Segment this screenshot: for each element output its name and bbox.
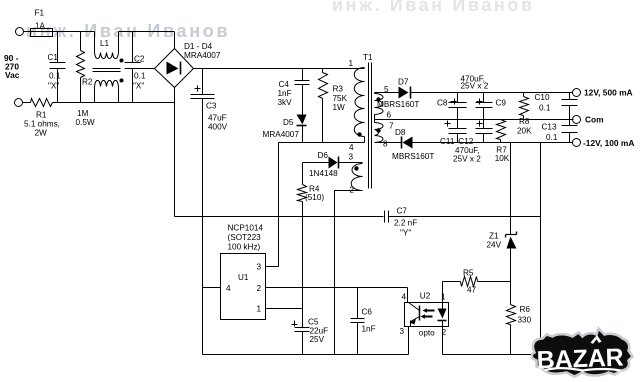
- T1 primary dot: [357, 132, 361, 136]
- bazar logo: [532, 329, 633, 377]
- T1 sec top dot: [376, 97, 380, 101]
- svg-text:20K: 20K: [517, 127, 532, 136]
- svg-text:D6: D6: [318, 151, 329, 160]
- svg-text:5.1 ohms,: 5.1 ohms,: [24, 120, 60, 129]
- capacitor C12: [476, 120, 493, 143]
- resistor R5: [443, 282, 511, 303]
- svg-text:"X": "X": [133, 82, 144, 91]
- svg-text:1: 1: [441, 293, 446, 302]
- svg-text:2.2 nF: 2.2 nF: [394, 219, 417, 228]
- svg-text:"Y": "Y": [400, 229, 411, 238]
- T1 primary winding: [354, 68, 364, 137]
- svg-text:4: 4: [402, 293, 407, 302]
- svg-text:R8: R8: [519, 117, 530, 126]
- zener Z1: [510, 143, 512, 235]
- capacitor C10: [562, 93, 578, 120]
- capacitor C9: [476, 93, 493, 120]
- wire aux return: [335, 191, 363, 355]
- svg-text:C6: C6: [362, 308, 373, 317]
- svg-text:1A: 1A: [35, 22, 46, 31]
- svg-text:U2: U2: [420, 291, 431, 300]
- U1 pin4 line: [203, 287, 221, 289]
- resistor R2: [80, 32, 82, 103]
- svg-text:1W: 1W: [333, 103, 346, 112]
- L1 dot top: [120, 59, 124, 63]
- svg-text:3: 3: [349, 153, 354, 162]
- svg-text:1: 1: [257, 305, 262, 314]
- U1 pin3: [266, 266, 279, 268]
- wire DC+ rail: [194, 68, 365, 70]
- C11 plus: [445, 121, 451, 127]
- svg-text:C10: C10: [535, 93, 550, 102]
- diode D8: [375, 142, 402, 144]
- svg-text:(SOT223: (SOT223: [228, 233, 262, 242]
- svg-text:0.1: 0.1: [546, 133, 558, 142]
- svg-text:C11: C11: [440, 137, 455, 146]
- svg-text:1nF: 1nF: [278, 89, 292, 98]
- fuse F1: [31, 29, 53, 37]
- svg-text:8: 8: [383, 140, 388, 149]
- diode D5: [297, 115, 307, 125]
- svg-text:MBRS160T: MBRS160T: [392, 152, 434, 161]
- wire Com rail: [375, 119, 574, 121]
- capacitor C7: [385, 211, 389, 223]
- svg-text:0.1: 0.1: [539, 104, 551, 113]
- svg-text:4: 4: [226, 284, 231, 293]
- svg-text:D8: D8: [395, 128, 406, 137]
- svg-text:R6: R6: [520, 305, 531, 314]
- C5 plus: [292, 321, 298, 327]
- svg-text:C4: C4: [279, 80, 290, 89]
- capacitor C8: [449, 93, 467, 120]
- T1 sec top winding: [374, 93, 376, 94]
- svg-text:D1 - D4: D1 - D4: [184, 42, 213, 51]
- capacitor C13: [562, 120, 578, 143]
- capacitor C2: [125, 32, 155, 103]
- diode D7: [375, 92, 399, 94]
- C12 plus: [477, 121, 483, 127]
- input terminal bottom (neutral): [15, 99, 23, 107]
- svg-text:Z1: Z1: [489, 232, 499, 241]
- U2 arrows: [425, 311, 435, 317]
- svg-text:10K: 10K: [495, 154, 510, 163]
- svg-text:NCP1014: NCP1014: [228, 224, 264, 233]
- C9 plus: [477, 99, 483, 105]
- svg-text:400V: 400V: [208, 123, 228, 132]
- svg-text:MRA4007: MRA4007: [184, 51, 221, 60]
- svg-text:24V: 24V: [487, 241, 502, 250]
- svg-text:0.1: 0.1: [49, 72, 61, 81]
- svg-text:C12: C12: [458, 137, 473, 146]
- bridge rectifier D1-D4: [155, 49, 194, 88]
- resistor R8: [523, 93, 525, 120]
- svg-text:C5: C5: [308, 318, 319, 327]
- svg-text:Com: Com: [585, 115, 604, 125]
- svg-text:C13: C13: [542, 123, 557, 132]
- svg-text:C1: C1: [48, 53, 59, 62]
- svg-text:C9: C9: [496, 99, 507, 108]
- resistor R4: [302, 163, 304, 328]
- T1 aux dot: [354, 166, 358, 170]
- svg-text:1M: 1M: [77, 109, 89, 118]
- svg-text:1: 1: [349, 59, 354, 68]
- svg-text:инж. Иван Иванов: инж. Иван Иванов: [332, 0, 535, 15]
- terminal 12V: [573, 89, 581, 97]
- svg-text:R7: R7: [496, 145, 507, 154]
- T1 aux winding: [351, 164, 362, 191]
- svg-text:C2: C2: [134, 55, 145, 64]
- wire gnd horizontal line: [175, 216, 541, 218]
- U2 pin2 wire: [442, 327, 444, 355]
- U2 pin3 wire: [408, 327, 410, 355]
- resistor R3: [322, 69, 324, 143]
- svg-text:12V, 500 mA: 12V, 500 mA: [584, 88, 633, 98]
- svg-text:25V x 2: 25V x 2: [461, 82, 489, 91]
- wire top rail left: [24, 32, 175, 53]
- svg-text:MBRS160T: MBRS160T: [377, 100, 419, 109]
- svg-text:47uF: 47uF: [208, 114, 227, 123]
- resistor R6: [510, 304, 512, 306]
- T1 sec bottom winding: [375, 123, 384, 143]
- L1 dot bottom: [120, 79, 124, 83]
- svg-text:7: 7: [389, 122, 394, 131]
- svg-text:MRA4007: MRA4007: [263, 130, 300, 139]
- svg-text:R1: R1: [36, 111, 47, 120]
- capacitor C1: [50, 32, 66, 103]
- svg-text:3: 3: [400, 327, 405, 336]
- wire secondary return bus: [443, 143, 541, 355]
- svg-text:100 kHz): 100 kHz): [228, 243, 261, 252]
- svg-text:6: 6: [387, 111, 392, 120]
- svg-text:25V x 2: 25V x 2: [453, 154, 481, 163]
- svg-text:1nF: 1nF: [362, 325, 376, 334]
- svg-text:C8: C8: [437, 99, 448, 108]
- wire T1 pin4 line: [279, 137, 365, 143]
- svg-text:R2: R2: [82, 78, 93, 87]
- svg-text:F1: F1: [35, 9, 45, 18]
- resistor R1: [23, 102, 175, 104]
- svg-text:330: 330: [518, 316, 532, 325]
- U1 pin1 line: [266, 308, 303, 310]
- svg-text:(510): (510): [305, 193, 324, 202]
- svg-text:Vac: Vac: [5, 70, 20, 80]
- svg-text:R5: R5: [463, 269, 474, 278]
- capacitor C11: [449, 120, 467, 143]
- svg-text:-12V, 100 mA: -12V, 100 mA: [583, 138, 634, 148]
- svg-text:opto: opto: [419, 329, 435, 338]
- svg-text:25V: 25V: [310, 335, 325, 344]
- choke L1: [95, 87, 119, 103]
- U2 phototransistor: [419, 306, 421, 321]
- T1 sec bottom dot: [376, 128, 380, 132]
- svg-text:3kV: 3kV: [278, 98, 293, 107]
- svg-text:C7: C7: [397, 207, 408, 216]
- U1 pin2 line: [266, 288, 408, 303]
- capacitor C6: [351, 288, 365, 355]
- svg-text:"X": "X": [48, 82, 59, 91]
- svg-text:75K: 75K: [333, 94, 348, 103]
- C3 plus sign: [195, 86, 201, 92]
- opto U2 box: [405, 303, 449, 327]
- input terminal top (line): [16, 28, 24, 36]
- svg-text:4: 4: [349, 143, 354, 152]
- svg-text:47: 47: [467, 286, 477, 295]
- svg-text:0.5W: 0.5W: [76, 118, 95, 127]
- terminal -12V: [573, 139, 581, 147]
- U2 LED: [442, 303, 444, 309]
- svg-text:T1: T1: [363, 53, 373, 62]
- op-amp U1 box: [221, 254, 266, 320]
- svg-text:0.1: 0.1: [134, 72, 146, 81]
- svg-text:3: 3: [257, 263, 262, 272]
- capacitor C4: [295, 69, 310, 115]
- wire drain vertical: [278, 143, 280, 267]
- capacitor C5: [295, 328, 310, 355]
- svg-text:1N4148: 1N4148: [309, 169, 338, 178]
- svg-text:2W: 2W: [35, 129, 48, 138]
- resistor R7: [500, 140, 502, 143]
- wire primary gnd bus: [203, 354, 409, 356]
- svg-text:D5: D5: [283, 118, 294, 127]
- terminal Com: [573, 116, 581, 124]
- capacitor C3: [191, 69, 215, 355]
- wire bridge bottom to gnd line: [174, 88, 176, 217]
- diode D6: [303, 162, 329, 164]
- svg-text:L1: L1: [100, 39, 110, 48]
- C8 plus: [451, 99, 457, 105]
- svg-text:D7: D7: [398, 78, 409, 87]
- svg-text:R3: R3: [333, 85, 344, 94]
- wire bridge top stub: [174, 32, 176, 49]
- svg-text:2: 2: [257, 284, 262, 293]
- svg-text:C3: C3: [206, 102, 217, 111]
- T1 core: [369, 63, 372, 189]
- svg-text:U1: U1: [238, 273, 249, 282]
